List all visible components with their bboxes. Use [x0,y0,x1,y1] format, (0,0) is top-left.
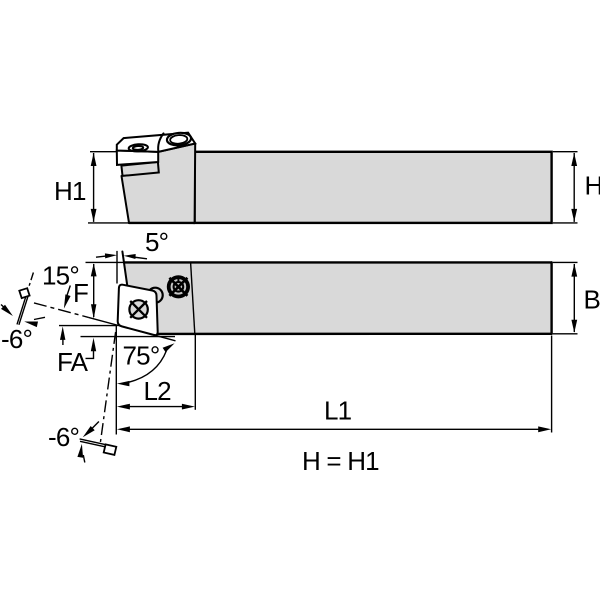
B dimension [553,261,578,263]
tip horizontal line1 [59,325,118,327]
screw head ellipse [166,132,191,146]
left -6deg symbol [17,293,27,324]
5deg annotation [116,251,118,284]
svg-text:B: B [584,285,600,315]
svg-text:15°: 15° [42,261,79,291]
insert (square, rounded corners) [118,285,158,335]
clamp front face white [117,151,158,165]
clamp/screw divider curve [158,133,163,152]
shank bottom edge [156,333,551,336]
clamp top face white [117,133,195,152]
clamp face bottom edge [158,144,195,152]
insert side band grey [121,162,158,176]
svg-text:-6°: -6° [48,422,79,452]
svg-text:5°: 5° [145,227,168,257]
shank right edge [550,262,552,333]
L1 dimension [551,336,553,433]
svg-text:75°: 75° [123,341,160,371]
clamp hole ellipse [128,144,148,152]
boss circle behind insert [148,288,163,303]
head end 5deg edge [122,252,127,286]
head left edge [122,176,130,223]
svg-text:FA: FA [57,347,89,377]
insert screw [129,300,147,318]
H1 dimension [90,151,117,153]
bottom -6deg symbol [100,332,116,446]
body grey [118,262,552,334]
cutting edge dash-dot extension [34,303,89,318]
H dimension [553,151,578,153]
head body grey [122,144,196,223]
svg-text:L2: L2 [144,376,172,406]
F dimension [86,261,125,263]
cutting edge 15deg line solid [89,317,176,340]
svg-text:H1: H1 [54,176,86,206]
head joint line lower view [191,262,195,333]
clamp screw (black) [169,277,188,296]
head joint line [194,144,197,223]
svg-text:L1: L1 [324,396,352,426]
shank top edge [124,261,552,263]
head bottom edge [129,222,195,224]
svg-text:H = H1: H = H1 [302,446,379,476]
svg-text:-6°: -6° [1,324,32,354]
tip horizontal line2 [81,336,176,338]
shank body top view [195,152,552,223]
L2 dimension [115,326,117,435]
15deg annotation [64,294,71,308]
75deg annotation [129,351,167,383]
svg-text:H: H [585,171,600,201]
FA annotation [91,338,96,352]
